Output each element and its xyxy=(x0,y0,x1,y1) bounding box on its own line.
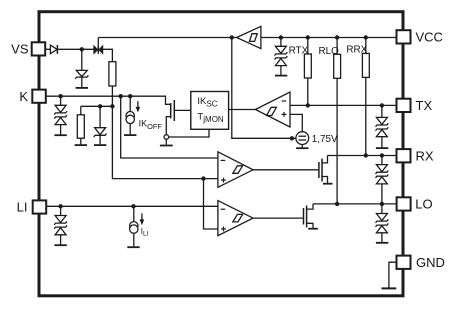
IC outer border xyxy=(39,12,403,296)
node subwire-RV xyxy=(110,104,114,108)
wire K subnode xyxy=(81,105,113,107)
svg-text:GND: GND xyxy=(416,255,445,270)
wire drop to U4 minus xyxy=(121,96,218,158)
zener pair ZP2 below TX xyxy=(376,105,389,148)
pin LI xyxy=(33,200,47,213)
wire VS line xyxy=(46,48,50,50)
wire VS to junction xyxy=(58,48,94,50)
pin TX xyxy=(397,99,411,112)
wire rail riser above D2 xyxy=(97,38,99,46)
zener pair ZP6 below LI xyxy=(54,206,67,245)
wire RX line xyxy=(328,155,397,157)
wire reference drop to 1.75V xyxy=(232,38,296,139)
svg-text:RTX: RTX xyxy=(289,45,309,56)
svg-text:K: K xyxy=(19,89,28,104)
resistor RV (VS series) xyxy=(109,62,116,86)
wire LI line xyxy=(46,205,218,207)
svg-text:TX: TX xyxy=(416,98,433,113)
pin GND xyxy=(397,256,411,269)
svg-text:RX: RX xyxy=(416,148,434,163)
label U5 plus xyxy=(221,228,226,230)
label U2 minus xyxy=(221,101,287,231)
transistor Q3 (LO stage) xyxy=(304,204,318,229)
zener pair ZP4 RX to LO xyxy=(376,156,389,204)
op-amp U4 comparator (RX path) xyxy=(218,152,253,188)
node rail-RTX xyxy=(306,35,310,39)
svg-text:RLO: RLO xyxy=(319,46,340,57)
transistor Q2 (RX stage) xyxy=(319,156,333,184)
zener pair ZP3 below K xyxy=(54,96,67,135)
label U4 minus xyxy=(221,159,226,161)
node LI-zener xyxy=(58,204,62,208)
voltage source 1.75V xyxy=(296,132,309,148)
node K-zenerpair xyxy=(58,94,62,98)
pin VCC xyxy=(397,30,411,43)
resistor RLO xyxy=(334,38,341,204)
transistor Q1 (K clamp) xyxy=(160,100,209,146)
node LO-zener xyxy=(380,202,384,206)
pin K xyxy=(32,90,46,103)
wire link to U5 plus xyxy=(204,179,218,229)
label U2 plus xyxy=(282,113,287,115)
zener pair ZP1 below rail xyxy=(275,38,288,76)
current source IKOFF xyxy=(124,96,136,135)
node rail-RRX xyxy=(364,35,368,39)
zener Z1 below VS junction xyxy=(75,49,88,88)
svg-text:VS: VS xyxy=(11,42,29,57)
node VS junction xyxy=(80,47,84,51)
pin LO xyxy=(397,197,411,210)
node rail tap xyxy=(230,35,234,39)
bidirectional diode D2 (back-to-back) xyxy=(94,45,103,53)
node TX-RTX xyxy=(306,103,310,107)
wire LO line xyxy=(313,203,397,205)
wire VCC rail xyxy=(261,37,397,39)
node RX-RRX xyxy=(364,153,368,157)
diode D1 series VS xyxy=(50,45,57,54)
label U4 plus xyxy=(221,179,226,181)
op-amp U1 buffer (VCC) xyxy=(237,26,261,48)
svg-text:RRX: RRX xyxy=(346,45,367,56)
node rail-zener xyxy=(279,35,283,39)
node split to U5 plus xyxy=(201,176,205,180)
resistor RTX xyxy=(304,38,311,106)
op-amp U5 comparator (LO path) xyxy=(218,201,253,236)
current source ILI xyxy=(127,206,139,247)
wire TX line xyxy=(290,104,397,106)
wire GND internal xyxy=(389,262,397,287)
svg-text:VCC: VCC xyxy=(416,29,443,44)
node near 1.75V source xyxy=(290,136,294,140)
wire drop to U4 plus xyxy=(112,106,217,178)
svg-text:1,75V: 1,75V xyxy=(312,134,338,145)
wire U2 plus stub to 1.75V xyxy=(290,114,302,131)
zener pair ZP5 below LO xyxy=(376,204,389,243)
label U5 minus xyxy=(221,208,226,210)
wire RV down across K line to subnode xyxy=(111,86,113,106)
wire U4 output to Q2 gate xyxy=(253,169,318,171)
node TX-zener xyxy=(380,103,384,107)
node K-dropA xyxy=(119,94,123,98)
node subwire-zener xyxy=(98,104,102,108)
resistor RK xyxy=(75,106,87,145)
pin RX xyxy=(397,149,411,162)
node LO-RLO xyxy=(335,202,339,206)
arrow ILI xyxy=(140,213,145,225)
ground xyxy=(382,287,397,289)
wire U5 output to Q3 gate xyxy=(253,217,303,219)
op-amp U2 comparator (TX receive, faces left) xyxy=(255,92,290,127)
wire U2 output to block xyxy=(229,109,256,111)
wire top rail xyxy=(98,37,236,39)
node K-IKOFF xyxy=(128,94,132,98)
wire K line xyxy=(46,96,171,104)
svg-text:LI: LI xyxy=(17,199,28,214)
pin VS xyxy=(32,42,46,55)
zener Z2 below subwire xyxy=(94,106,107,145)
wire VS to resistor RV xyxy=(103,49,113,61)
arrow IKOFF xyxy=(136,101,141,112)
node rail-RLO xyxy=(335,35,339,39)
svg-text:LO: LO xyxy=(415,197,432,212)
resistor RRX xyxy=(362,38,369,156)
node LI-ILI xyxy=(131,204,135,208)
node RX-zener xyxy=(380,153,384,157)
block U3 IKSC/TjMON xyxy=(191,92,229,130)
